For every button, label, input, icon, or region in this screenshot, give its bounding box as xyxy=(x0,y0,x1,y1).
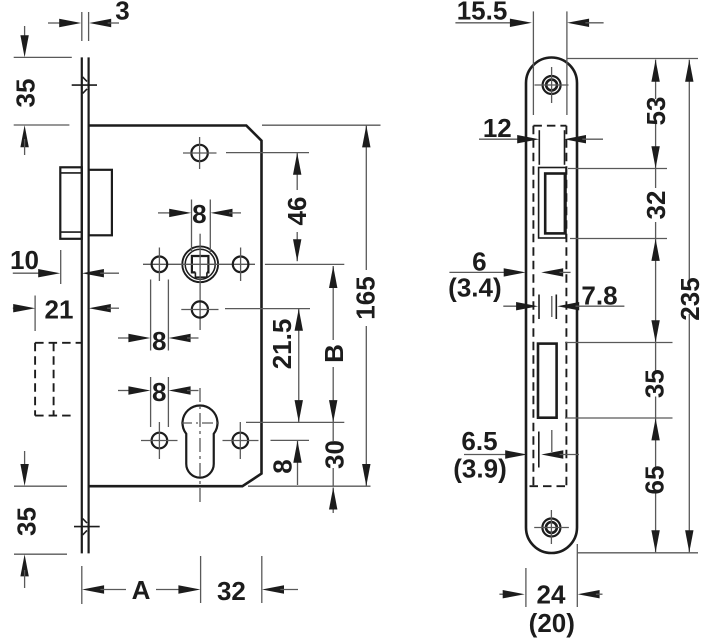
lock case outline xyxy=(89,126,262,487)
cylinder screw slot xyxy=(539,295,556,320)
ext line latch cutout bottom xyxy=(570,238,667,240)
svg-text:(3.4): (3.4) xyxy=(448,273,501,303)
cylinder centerlines (dash-dot) xyxy=(181,388,222,504)
svg-text:32: 32 xyxy=(641,191,671,220)
dimension 8 (spindle square) xyxy=(158,199,241,229)
ext lines lower hole 8 xyxy=(150,377,152,427)
ext lines spindle square 8 xyxy=(191,200,193,253)
svg-text:35: 35 xyxy=(640,369,670,398)
svg-text:21: 21 xyxy=(45,295,74,325)
ext line deadbolt cutout bottom xyxy=(565,417,673,419)
top screw hole xyxy=(535,67,569,103)
dimension 8 (hub hole dia) xyxy=(118,326,199,356)
dimension 6 (3.4) xyxy=(448,246,570,302)
euro profile cylinder hole xyxy=(183,405,218,477)
right hub hole xyxy=(233,248,249,282)
lower left hole xyxy=(141,422,178,459)
dimension 8 (lower hole dia) xyxy=(118,377,199,407)
dimension 35 (top) xyxy=(10,26,40,155)
svg-text:6.5: 6.5 xyxy=(461,426,497,456)
faceplate break mark (top) xyxy=(72,77,97,94)
spindle square 8mm xyxy=(192,256,209,277)
dimension A xyxy=(82,575,200,605)
faceplate outline (stadium) xyxy=(526,58,577,554)
ext line plate bottom xyxy=(578,552,699,554)
svg-text:10: 10 xyxy=(10,245,39,275)
svg-text:3: 3 xyxy=(115,0,129,26)
latch head (through cutout) xyxy=(545,174,565,234)
dimension B xyxy=(319,266,349,422)
ext lines 15.5 xyxy=(532,11,534,115)
dimension 10 (latch projection) xyxy=(10,245,119,277)
ext line deadbolt 21 xyxy=(34,296,36,332)
svg-text:8: 8 xyxy=(268,459,298,473)
ext line case top xyxy=(262,124,381,126)
svg-text:165: 165 xyxy=(351,276,381,319)
svg-text:7.8: 7.8 xyxy=(581,280,617,310)
svg-text:30: 30 xyxy=(320,440,350,469)
dimension 7.8 xyxy=(503,280,624,310)
dimension 21.5 xyxy=(267,309,303,422)
dimension 21 (deadbolt throw) xyxy=(13,295,119,325)
hole below spindle xyxy=(181,301,218,317)
svg-text:65: 65 xyxy=(640,466,670,495)
ext line cylinder axis xyxy=(246,421,344,423)
svg-text:8: 8 xyxy=(152,377,166,407)
dimension 165 xyxy=(351,125,381,486)
ext line latch cutout top xyxy=(568,168,667,170)
svg-text:53: 53 xyxy=(641,97,671,126)
ext line latch nose 10 xyxy=(60,250,62,284)
upper cutout 12mm xyxy=(539,130,564,165)
dimension 32 (backset) xyxy=(217,576,298,606)
dimension chain 53/32/35/65 xyxy=(640,60,672,553)
svg-text:35: 35 xyxy=(12,507,42,536)
svg-text:8: 8 xyxy=(152,326,166,356)
ext lines hub hole 8 upper xyxy=(150,280,152,351)
dashed deadbolt (thrown position) xyxy=(35,343,81,416)
dimension 15.5 xyxy=(455,0,603,27)
latch cutout xyxy=(539,168,566,239)
ext line lower holes axis xyxy=(271,439,310,441)
ext line faceplate A xyxy=(81,566,83,604)
spindle follower hub xyxy=(182,246,218,282)
dimension 235 xyxy=(675,60,702,553)
dimension 30 xyxy=(320,422,350,513)
svg-text:B: B xyxy=(319,344,349,363)
bottom screw hole xyxy=(534,510,569,544)
top fixing hole xyxy=(183,137,217,169)
ext line case top left xyxy=(14,124,70,126)
deadbolt cutout xyxy=(538,344,557,418)
dimension 12 xyxy=(479,113,603,143)
ext line deadbolt cutout top xyxy=(565,342,673,344)
ext line case edge 32 xyxy=(261,556,263,603)
dashed recess outline xyxy=(530,126,569,487)
lower right hole xyxy=(223,422,259,459)
svg-text:15.5: 15.5 xyxy=(457,0,508,26)
svg-text:32: 32 xyxy=(217,576,246,606)
ext line case bottom xyxy=(248,485,371,487)
svg-text:35: 35 xyxy=(10,79,40,108)
ext line plate top xyxy=(567,58,699,60)
svg-text:46: 46 xyxy=(282,197,312,226)
ext lines 24 xyxy=(525,568,527,607)
svg-text:(20): (20) xyxy=(529,608,575,638)
dimension 8 (lower holes to case bottom) xyxy=(268,441,302,485)
horizontal centerline through spindle xyxy=(143,263,344,265)
svg-text:8: 8 xyxy=(192,199,206,229)
dimension 46 xyxy=(282,153,312,261)
faceplate break mark (bottom) xyxy=(74,519,100,536)
latch bolt rear block xyxy=(89,170,112,236)
vertical centerline through spindle xyxy=(199,234,201,330)
ext line faceplate bottom left xyxy=(14,553,67,555)
ext line case bottom left xyxy=(14,485,67,487)
svg-text:235: 235 xyxy=(675,277,702,320)
svg-text:(3.9): (3.9) xyxy=(453,454,506,484)
left hub hole xyxy=(152,248,168,282)
svg-text:12: 12 xyxy=(483,113,512,143)
dimension 35 (bottom) xyxy=(12,451,42,588)
ext line cylinder axis A/32 xyxy=(200,556,202,603)
dimension 24 (20) xyxy=(499,580,602,638)
svg-text:A: A xyxy=(132,575,151,605)
dimension 3 (faceplate thickness) xyxy=(48,0,130,41)
ext line hole below spindle xyxy=(225,308,310,310)
ext line top hole xyxy=(226,152,309,154)
latch bolt front block xyxy=(60,167,82,239)
svg-text:24: 24 xyxy=(537,580,566,610)
faceplate (side view, thin strip) xyxy=(82,57,89,553)
dimension 6.5 (3.9) xyxy=(453,426,579,484)
ext line faceplate top left xyxy=(14,56,72,58)
lower slot edge xyxy=(539,430,552,468)
svg-text:21.5: 21.5 xyxy=(267,319,297,370)
